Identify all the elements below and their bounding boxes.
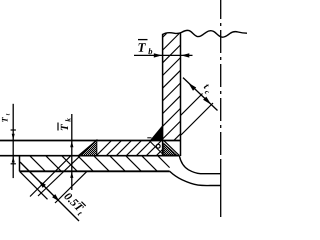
svg-text:k: k	[64, 118, 73, 122]
svg-text:b: b	[148, 46, 152, 56]
svg-text:T: T	[0, 117, 10, 123]
svg-text:T: T	[137, 40, 146, 55]
